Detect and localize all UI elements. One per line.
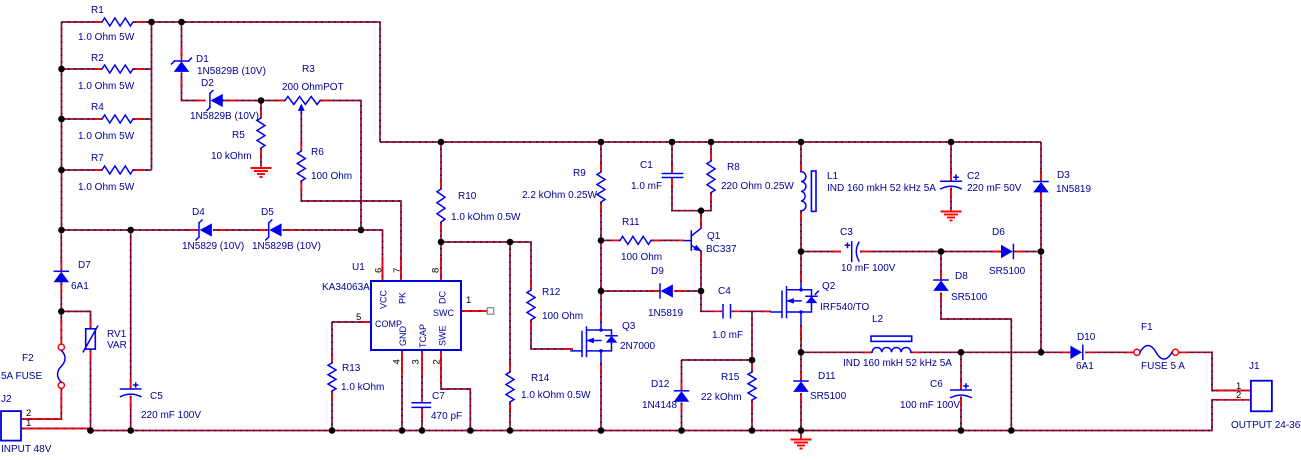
varistor RV1 [86,329,96,349]
node RV1-gnd [87,427,94,434]
svg-text:4: 4 [392,359,403,364]
wire 242 row [441,242,531,290]
lead D10 [1060,351,1095,353]
wire Q2 drain [800,252,802,283]
lead D4 [187,229,227,231]
lead SWE [440,350,442,382]
svg-text:KA34063A: KA34063A [322,282,370,293]
svg-text:Q1: Q1 [707,231,721,242]
resistor R5 [257,118,265,148]
transistor Q2 body diode [807,297,817,303]
lead D6 [991,251,1023,253]
svg-text:C3: C3 [840,227,853,238]
node C1-R8-Q1 [698,207,705,214]
wire D9 row [601,290,660,292]
svg-text:1: 1 [466,295,471,306]
diode D4 [198,223,200,237]
svg-text:R2: R2 [91,53,104,64]
svg-text:10 kOhm: 10 kOhm [211,151,252,162]
node D3-D6 [1038,248,1045,255]
wire F1-J1 [1179,352,1251,390]
node R1-right [148,19,155,26]
lead C3 [831,251,870,253]
diode D2 body [211,95,222,107]
svg-text:R4: R4 [91,102,104,113]
svg-text:6A1: 6A1 [1076,361,1094,372]
wire mid rail 230 [62,229,200,231]
lead D5 [257,229,297,231]
lead RV1 [90,318,92,359]
svg-text:22 kOhm: 22 kOhm [701,392,742,403]
svg-text:D11: D11 [818,371,836,382]
svg-text:R15: R15 [721,372,740,383]
wire D11 branch [800,352,802,381]
svg-text:7: 7 [392,268,403,273]
svg-text:D2: D2 [201,78,214,89]
node R3-VCC [358,227,365,234]
svg-text:D4: D4 [192,207,205,218]
resistor R10 [437,189,445,222]
svg-text:6A1: 6A1 [71,281,89,292]
wire SWE jog [441,350,470,431]
lead C2 [950,171,952,198]
svg-text:220 Ohm 0.25W: 220 Ohm 0.25W [721,181,794,192]
wire R11 row [601,239,610,241]
diode D7 body [54,272,68,282]
svg-text:200 OhmPOT: 200 OhmPOT [282,82,344,93]
svg-text:5A FUSE: 5A FUSE [1,371,42,382]
lead Q1 base [676,239,684,241]
svg-text:100 Ohm: 100 Ohm [621,252,662,263]
lead Q2 drain [800,272,802,282]
svg-text:D9: D9 [651,266,664,277]
node R13-gnd [329,427,336,434]
svg-text:C5: C5 [150,391,163,402]
wire D7 top [60,230,62,271]
resistor R14 [506,372,514,402]
ground R5 [251,167,272,169]
lead DC [440,258,442,281]
svg-text:DC: DC [438,291,448,304]
wire R6-PK [301,181,401,281]
wire D8 jog [941,293,1011,431]
lead D11 [800,371,802,403]
svg-text:D8: D8 [955,271,968,282]
resistor R9 [597,172,605,202]
node R11-tap [598,237,605,244]
resistor R4 [102,115,133,123]
wire L1 bot [800,211,802,252]
wire C5 branch [130,230,132,389]
inductor L2 [872,347,911,352]
svg-text:R9: R9 [573,168,586,179]
svg-text:F2: F2 [22,353,34,364]
lead R5 [260,108,262,158]
wire R8 branch [710,142,712,161]
svg-text:PK: PK [398,292,408,304]
node R15-gnd [749,427,756,434]
svg-text:2: 2 [432,359,443,364]
lead R4 [92,118,143,120]
svg-text:C4: C4 [718,286,731,297]
lead D2 [195,100,238,102]
svg-text:TCAP: TCAP [418,324,428,348]
node Q2src-L2-D11 [798,349,805,356]
wire D7 bot [60,282,62,311]
lead R2 [92,68,143,70]
diode D3 [1034,181,1048,183]
node C5-gnd [127,427,134,434]
potentiometer R3 [285,97,320,105]
svg-text:1.0 Ohm 5W: 1.0 Ohm 5W [78,182,135,193]
svg-text:SR5100: SR5100 [951,292,988,303]
wire R15 drop [751,311,753,372]
svg-text:R8: R8 [727,162,740,173]
wire C4 row [701,291,712,311]
svg-text:C6: C6 [930,379,943,390]
node D1-top [178,19,185,26]
wire R10 top [440,142,442,189]
wire RV1 link [61,311,90,328]
svg-text:Q2: Q2 [822,281,836,292]
wire D12 row [682,359,753,361]
svg-text:1N5819: 1N5819 [648,308,683,319]
lead L2 [862,351,921,353]
svg-text:220 mF 50V: 220 mF 50V [967,183,1022,194]
transistor Q2 arrow [787,299,794,303]
wire Q2 src [800,325,802,352]
svg-text:1.0 kOhm 0.5W: 1.0 kOhm 0.5W [451,212,521,223]
wiper arrow R3 [299,105,305,111]
lead R3 [275,100,330,102]
wire L1 top [800,142,802,172]
lead SWC [461,310,487,312]
svg-text:F1: F1 [1141,322,1153,333]
svg-text:R5: R5 [232,130,245,141]
resistor R15 [748,372,756,400]
lead F2 top [60,320,62,344]
ground main [791,439,812,441]
wire J2 pin2 [21,388,61,419]
svg-text:SR5100: SR5100 [989,266,1026,277]
svg-text:1.0 mF: 1.0 mF [712,330,743,341]
svg-text:100 Ohm: 100 Ohm [311,171,352,182]
capacitor C7 [412,403,430,408]
fuse F2 [58,344,64,350]
svg-text:D10: D10 [1077,332,1096,343]
svg-text:L1: L1 [827,171,839,182]
op-amp U1 KA34063A [371,281,461,350]
svg-text:C2: C2 [967,171,980,182]
svg-text:R13: R13 [342,363,361,374]
wire C3 row [801,251,841,253]
node D2-R5-R3 [258,97,265,104]
transistor Q3 [571,322,617,364]
svg-text:OUTPUT 24-36V: OUTPUT 24-36V [1231,420,1301,431]
capacitor C2 [941,180,961,182]
diode D10 [1082,345,1084,359]
diode D10 body [1071,346,1082,358]
svg-text:D5: D5 [261,207,274,218]
node GND4 [399,427,406,434]
node R15-top [749,357,756,364]
diode D1 body [175,62,189,72]
lead R7 [92,169,143,171]
node D9-left [598,288,605,295]
svg-text:220 mF 100V: 220 mF 100V [141,410,201,421]
svg-text:2.2 kOhm 0.25W: 2.2 kOhm 0.25W [522,190,598,201]
svg-text:J2: J2 [1,394,12,405]
lead R10 [440,179,442,232]
wire D12 branch [681,360,683,390]
svg-text:R14: R14 [531,373,550,384]
svg-text:COMP: COMP [375,319,402,329]
svg-text:IND 160 mkH 52 kHz 5A: IND 160 mkH 52 kHz 5A [827,183,936,194]
lead D7 [60,260,62,292]
wire Q3 src [600,363,602,431]
wire Q1 col [700,211,702,228]
wire SWC [461,310,487,312]
wire C1 branch [671,142,673,174]
diode D8 body [934,281,948,291]
transistor Q3 arrow [587,338,594,342]
svg-text:R12: R12 [542,287,561,298]
node Q3src-gnd [598,427,605,434]
wire bottom rail [21,400,1251,431]
svg-text:5: 5 [356,312,361,323]
resistor R6 [297,151,305,181]
node D7-F2-RV1 [58,308,65,315]
lead D1 [181,45,183,88]
node R14-top [507,239,514,246]
diode D11 body [794,382,808,392]
svg-text:6: 6 [374,268,385,273]
node R2-left [58,66,65,73]
svg-text:SWE: SWE [438,325,448,346]
svg-text:INPUT 48V: INPUT 48V [1,444,52,455]
svg-text:1N4148: 1N4148 [642,400,677,411]
wire R9 top [600,142,602,172]
node D11-gnd [798,427,805,434]
lead R11 [610,239,661,241]
diode D3 body [1034,183,1048,193]
capacitor C3 [851,242,853,262]
node R10-top [438,139,445,146]
lead D3 [1040,171,1042,202]
svg-text:1N5829B (10V): 1N5829B (10V) [190,111,259,122]
diode D12 body [675,392,689,402]
diode D4 body [201,224,212,236]
node C7-gnd [419,427,426,434]
svg-text:R7: R7 [91,153,104,164]
node D12-gnd [678,427,685,434]
node C5-tap [127,227,134,234]
wire top rail [62,21,103,23]
svg-text:IND 160 mkH 52 kHz 5A: IND 160 mkH 52 kHz 5A [843,358,952,369]
diode D7 [54,270,68,272]
wire F2 top [60,311,62,344]
lead F2 bot [60,388,62,412]
svg-text:1.0 Ohm 5W: 1.0 Ohm 5W [78,81,135,92]
wire R9-Q3 [600,202,602,323]
svg-text:D1: D1 [196,54,209,65]
svg-text:R10: R10 [458,191,477,202]
transistor Q2 [771,282,817,325]
resistor R13 [328,363,336,391]
wire R12-Q3gate [531,320,573,349]
node R9-top [598,139,605,146]
svg-text:100 Ohm: 100 Ohm [542,311,583,322]
svg-text:D7: D7 [78,260,91,271]
resistor R12 [527,290,535,320]
lead D8 [940,270,942,302]
lead D9 [650,290,684,292]
svg-text:1N5819: 1N5819 [1056,184,1091,195]
node R8-top [708,139,715,146]
diode D12 [675,390,689,392]
svg-text:SWC: SWC [433,308,454,318]
wire out rail [801,351,872,353]
lead R15 [751,362,753,410]
transistor Q3 body diode [607,336,617,342]
svg-text:100 mF 100V: 100 mF 100V [900,400,960,411]
connector J1 [1251,381,1272,412]
svg-text:1N5829B (10V): 1N5829B (10V) [252,241,321,252]
lead J1 pin1 [1216,390,1251,392]
node out-D10 [1038,349,1045,356]
wire wiper-R6 [300,112,302,151]
diode D2 [209,94,211,108]
capacitor C1 [662,174,682,178]
node C6-gnd [958,427,965,434]
lead Q2 gate [761,310,771,312]
node C2-top [948,139,955,146]
emitter arrow Q1 [694,245,701,250]
diode D5 body [270,224,281,236]
node D8-gnd [1008,427,1015,434]
svg-text:C7: C7 [432,391,445,402]
diode D1 [175,60,189,62]
svg-text:C1: C1 [640,160,653,171]
node R14-gnd [507,427,514,434]
lead Q1 emit [700,251,702,262]
wire R3 right [320,101,361,231]
svg-text:1.0 Ohm 5W: 1.0 Ohm 5W [78,32,135,43]
svg-text:2: 2 [1236,390,1241,401]
wire right bank bus [151,22,153,170]
resistor R8 [707,161,715,193]
capacitor C5 [121,388,141,390]
diode D9 [659,284,661,298]
fuse F1 [1134,349,1140,355]
lead R8 [710,151,712,203]
svg-text:IRF540/TO: IRF540/TO [820,302,869,313]
connector J2 [1,411,21,441]
svg-text:1.0 kOhm: 1.0 kOhm [341,382,384,393]
lead Q3 src [600,363,602,373]
resistor R7 [102,166,133,174]
lead D12 [681,380,683,412]
svg-text:BC337: BC337 [706,244,737,255]
svg-text:8: 8 [431,268,442,273]
lead L1 [800,162,802,221]
wire D8 branch [940,252,942,281]
lead TCAP [421,350,423,420]
svg-text:VCC: VCC [379,289,389,309]
wire R2 row [62,68,103,70]
svg-text:10 mF 100V: 10 mF 100V [841,263,896,274]
terminal SWC [487,308,493,314]
node L1-C3-Q2 [798,248,805,255]
lead Q3 drain [600,313,602,322]
lead R9 [600,162,602,212]
wire rail 142 [380,141,1041,143]
node R10-bot [438,239,445,246]
svg-text:R1: R1 [91,5,104,16]
svg-text:1: 1 [26,418,31,429]
wire C2 branch [950,142,952,181]
svg-text:R6: R6 [311,147,324,158]
diode D9 body [662,285,673,297]
node D7-tap [58,227,65,234]
wire RV1 bot [90,349,92,430]
lead J2 pin1 [21,428,88,430]
svg-text:1.0 kOhm 0.5W: 1.0 kOhm 0.5W [521,390,591,401]
transistor Q1 [690,231,692,250]
svg-text:3: 3 [411,359,422,364]
capacitor C6 [951,389,971,391]
svg-text:FUSE 5 A: FUSE 5 A [1141,361,1185,372]
svg-text:D12: D12 [651,379,670,390]
lead Q3 gate [561,348,571,350]
node C6-top [958,349,965,356]
wire R4 row [62,118,103,120]
lead R1 [92,21,143,23]
svg-text:RV1: RV1 [107,329,127,340]
wire R5 branch [260,101,262,119]
svg-text:Q3: Q3 [622,321,636,332]
wire R7 row [62,169,103,171]
svg-text:L2: L2 [872,314,884,325]
lead Q2 src [800,325,802,338]
diode D5 [268,223,270,237]
lead R14 [509,362,511,412]
svg-text:1.0 mF: 1.0 mF [631,181,662,192]
lead C6 [960,380,962,406]
node R7-left [58,167,65,174]
diode D8 [934,279,948,281]
lead GND4 [401,350,403,375]
lead R12 [530,280,532,330]
inductor L1 [801,172,806,211]
lead COMP [360,321,371,323]
node L1-top [798,139,805,146]
svg-text:VAR: VAR [107,340,127,351]
svg-text:470 pF: 470 pF [431,411,462,422]
wire TCAP-C7 [421,350,423,403]
wire D1 branch [181,22,183,61]
svg-text:D6: D6 [992,227,1005,238]
svg-text:U1: U1 [352,262,365,273]
svg-text:SR5100: SR5100 [810,391,847,402]
wire COMP-R13 [332,321,371,323]
capacitor C4 [723,305,731,318]
diode D6 body [1001,246,1012,258]
node D9-right [698,288,705,295]
svg-text:1N5829 (10V): 1N5829 (10V) [182,241,244,252]
resistor R1 [102,18,133,26]
lead C1 [671,163,673,188]
